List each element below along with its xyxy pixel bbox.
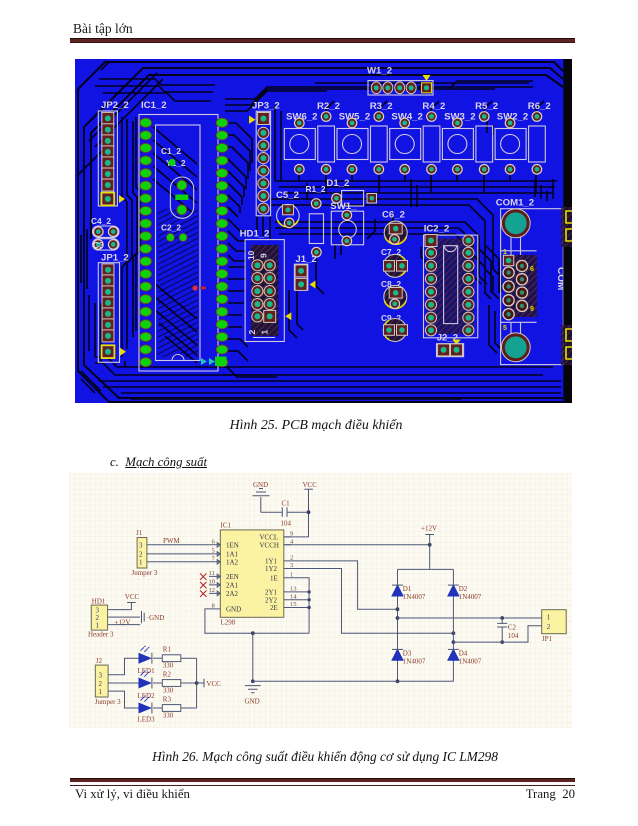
- board edge strip: [561, 59, 572, 403]
- svg-text:IC1_2: IC1_2: [141, 100, 167, 111]
- connector JP1: [542, 610, 567, 643]
- svg-text:D1_2: D1_2: [326, 178, 349, 189]
- header text: [73, 21, 133, 37]
- ground GND (bottom): [245, 686, 261, 706]
- svg-text:R4_2: R4_2: [422, 101, 445, 112]
- wire bottom-left risers: [89, 295, 125, 367]
- svg-text:D2: D2: [459, 585, 468, 593]
- svg-text:+12V: +12V: [421, 525, 437, 533]
- op-amp U1 body: IC1 L298: [220, 522, 283, 627]
- svg-text:J1_2: J1_2: [295, 254, 316, 265]
- wire J2.3 to LED1: [108, 658, 138, 675]
- node C2 top junction: [500, 616, 504, 620]
- wire 1E/2Y1/2Y2/2E bus: [291, 578, 309, 633]
- svg-text:12: 12: [209, 587, 216, 594]
- connector W1_2: [367, 66, 433, 96]
- svg-text:9: 9: [530, 306, 534, 313]
- IC socket IC1_2: [139, 100, 218, 371]
- no-connect X on pin 12: [200, 590, 207, 597]
- wire bridge left out to JP1 pin1: [398, 617, 542, 619]
- svg-text:PWM: PWM: [163, 537, 181, 545]
- capacitor C3_2: [93, 239, 120, 250]
- connector HD1 Header 3: [88, 598, 114, 639]
- power VCC (HD1): [125, 593, 140, 603]
- wire J1.3 to 1EN: [147, 544, 215, 546]
- svg-text:C4_2: C4_2: [91, 216, 111, 226]
- resistor R6_2: [528, 101, 551, 174]
- svg-text:330: 330: [163, 711, 174, 719]
- pin stubs IC1 right: [284, 537, 292, 608]
- svg-text:10: 10: [209, 578, 216, 585]
- svg-text:GND: GND: [253, 481, 268, 489]
- svg-text:1Y2: 1Y2: [265, 565, 278, 573]
- wire IC1 column hatch: [153, 127, 197, 363]
- wire HD1.3 to VCC: [108, 603, 132, 610]
- svg-text:1N4007: 1N4007: [403, 658, 426, 666]
- svg-text:1: 1: [290, 571, 293, 578]
- footer thick rule: [70, 778, 575, 782]
- svg-text:C1: C1: [282, 500, 291, 508]
- svg-text:1: 1: [260, 330, 270, 335]
- wire HD1.2 to GND: [108, 616, 141, 618]
- wire bridge left branch: [397, 569, 399, 681]
- svg-text:C5_2: C5_2: [276, 190, 299, 201]
- svg-text:R6_2: R6_2: [528, 101, 551, 112]
- svg-text:15: 15: [290, 601, 297, 608]
- wire bridge right branch: [452, 569, 454, 681]
- svg-text:1N4007: 1N4007: [403, 593, 426, 601]
- footer left text: [75, 787, 190, 802]
- svg-text:2A1: 2A1: [226, 581, 239, 589]
- node right-branch bottom junction: [452, 640, 456, 644]
- svg-text:VCCH: VCCH: [260, 541, 279, 549]
- connector J2_2: [437, 333, 464, 357]
- switch SW2_2: [495, 112, 528, 174]
- resistor R2 330: [153, 671, 197, 695]
- connector HD1_2: [240, 229, 292, 342]
- diode D2 1N4007: [448, 585, 482, 601]
- node GND junction: [251, 631, 255, 635]
- IC1_2 left pads: [140, 118, 152, 367]
- svg-text:1N4007: 1N4007: [459, 593, 482, 601]
- svg-text:R2_2: R2_2: [317, 101, 340, 112]
- capacitor C1 104: [281, 500, 309, 528]
- wire 1Y1 pin2 to bridge left: [291, 561, 397, 609]
- svg-text:J2: J2: [96, 657, 103, 665]
- connector COM1_2: [496, 198, 566, 365]
- node pin2/left-branch junction: [396, 607, 400, 611]
- wire COM1 left bundle: [473, 245, 503, 353]
- no-connect X on pin 11: [200, 573, 207, 580]
- svg-text:3: 3: [99, 672, 103, 680]
- diode D1_2: [326, 178, 376, 206]
- svg-text:1: 1: [99, 688, 103, 696]
- diode D3 1N4007: [392, 649, 426, 665]
- svg-text:L298: L298: [221, 619, 236, 627]
- svg-text:2: 2: [547, 623, 551, 631]
- connector J1_2: [294, 254, 316, 290]
- switch SW1: [330, 201, 363, 246]
- wire bottom bundle: [95, 357, 561, 399]
- PCB image placeholder: [75, 59, 572, 403]
- wire bridge top rail: [398, 568, 454, 570]
- switch SW6_2: [284, 112, 317, 174]
- wire 1Y2 pin3 to bridge right: [291, 569, 453, 634]
- svg-text:9: 9: [259, 253, 269, 258]
- crystal Y1_2: [161, 146, 194, 218]
- header rule: [70, 38, 575, 43]
- svg-text:D4: D4: [459, 650, 468, 658]
- svg-text:R2: R2: [163, 671, 172, 679]
- svg-text:2E: 2E: [270, 604, 278, 612]
- wire border loop inner: [91, 75, 563, 239]
- svg-text:C1_2: C1_2: [161, 146, 181, 156]
- svg-text:VCC: VCC: [303, 481, 318, 489]
- svg-text:1A2: 1A2: [226, 558, 239, 566]
- resistor R3_2: [370, 101, 393, 174]
- node VCC bus junction: [195, 681, 199, 685]
- wire misc center: [81, 119, 553, 393]
- ground GND (top, near C1): [253, 481, 270, 512]
- capacitor C7_2: [381, 247, 408, 277]
- svg-text:6: 6: [530, 266, 534, 273]
- svg-text:LED2: LED2: [138, 692, 156, 700]
- svg-text:2: 2: [290, 554, 293, 561]
- svg-text:2: 2: [99, 680, 103, 688]
- svg-text:2Y1: 2Y1: [265, 588, 278, 596]
- svg-text:VCCL: VCCL: [260, 533, 279, 541]
- svg-text:W1_2: W1_2: [367, 66, 392, 77]
- diode D4 1N4007: [448, 649, 482, 665]
- svg-text:2: 2: [139, 551, 143, 559]
- resistor R4_2: [422, 101, 445, 174]
- IC socket IC2_2: [424, 224, 478, 338]
- wire SW bottom bundle: [275, 169, 557, 193]
- svg-text:J1: J1: [136, 529, 143, 537]
- svg-text:11: 11: [209, 570, 215, 577]
- wire R top stubs: [326, 101, 544, 117]
- svg-text:C2: C2: [508, 624, 517, 632]
- svg-text:GND: GND: [245, 698, 260, 706]
- wire J1.1 to 1A2: [147, 561, 215, 563]
- svg-text:GND: GND: [226, 605, 241, 613]
- svg-text:VCC: VCC: [125, 593, 140, 601]
- ground GND (HD1 power port): [142, 611, 165, 623]
- capacitor C5_2: [276, 190, 299, 228]
- PCB background: [75, 59, 572, 403]
- svg-text:·GND: ·GND: [147, 614, 165, 622]
- svg-text:14: 14: [290, 593, 297, 600]
- svg-text:R1_2: R1_2: [306, 184, 326, 194]
- LED LED3: [138, 695, 156, 723]
- pin stubs with input arrows on IC1 left: [209, 545, 220, 594]
- svg-text:13: 13: [290, 585, 297, 592]
- svg-text:1: 1: [547, 613, 551, 621]
- wire corner diagonals: [78, 62, 163, 175]
- svg-text:JP1: JP1: [542, 635, 553, 643]
- caption figure 25: [0, 418, 635, 434]
- wire GND to C1: [261, 511, 283, 513]
- resistor R5_2: [475, 101, 498, 174]
- wire bridge right out to JP1 pin2: [453, 626, 541, 642]
- svg-text:Jumper 3: Jumper 3: [132, 569, 158, 577]
- svg-text:HD1_2: HD1_2: [240, 229, 270, 240]
- svg-text:R5_2: R5_2: [475, 101, 498, 112]
- svg-text:R1: R1: [163, 645, 172, 653]
- svg-text:IC1: IC1: [221, 522, 232, 530]
- wire pin8 GND down: [205, 609, 309, 633]
- list item c: [110, 455, 207, 470]
- wire J2.1 to LED3: [108, 691, 138, 708]
- wire LED/R bus: [196, 658, 198, 708]
- resistor R1 330: [153, 645, 197, 669]
- svg-text:1N4007: 1N4007: [459, 658, 482, 666]
- connector J2 Jumper 3: [95, 657, 121, 706]
- svg-text:1: 1: [503, 249, 507, 256]
- resistor R1_2: [306, 184, 326, 257]
- LED LED2: [138, 670, 156, 700]
- svg-text:JP3_2: JP3_2: [252, 101, 280, 112]
- svg-text:D1: D1: [403, 585, 412, 593]
- svg-text:Jumper 3: Jumper 3: [95, 698, 121, 706]
- svg-text:10: 10: [246, 250, 256, 260]
- svg-text:2A2: 2A2: [226, 590, 239, 598]
- power VCC (LED bus): [197, 679, 222, 688]
- svg-text:1EN: 1EN: [226, 541, 239, 549]
- wire border loop outer: [78, 62, 563, 402]
- wire top bundle: [95, 79, 533, 181]
- svg-text:VCC: VCC: [206, 680, 221, 688]
- switch SW3_2: [442, 112, 475, 174]
- svg-text:C6_2: C6_2: [382, 210, 405, 221]
- svg-text:R3_2: R3_2: [370, 101, 393, 112]
- power VCC (top): [303, 481, 318, 537]
- svg-text:COM1_2: COM1_2: [496, 198, 534, 209]
- node pin3/right-branch junction: [452, 631, 456, 635]
- svg-text:330: 330: [163, 662, 174, 670]
- node C2 bottom junction: [500, 640, 504, 644]
- capacitor C6_2: [382, 210, 407, 245]
- svg-text:LED1: LED1: [138, 667, 156, 675]
- svg-text:LED3: LED3: [138, 716, 156, 724]
- wire right of IC1 bundle: [228, 123, 252, 361]
- svg-text:C3: C3: [93, 240, 104, 250]
- node rail/left-branch junction: [396, 679, 400, 683]
- no-connect X on pin 10: [200, 582, 207, 589]
- node VCC/C1 junction: [307, 510, 311, 514]
- footer thin rule: [70, 785, 575, 786]
- wire VCC to pin 9: [284, 536, 309, 538]
- connector JP1_2: [98, 253, 128, 363]
- caption figure 26: [6, 749, 638, 765]
- wire HD1.1 stub: [108, 624, 141, 626]
- wire J1.2 to 1A1: [147, 553, 215, 555]
- svg-text:C2_2: C2_2: [161, 223, 181, 233]
- node +12V junction: [428, 543, 432, 547]
- svg-text:HD1: HD1: [92, 598, 106, 606]
- svg-text:2: 2: [247, 330, 257, 335]
- footer right text: [0, 787, 575, 802]
- svg-text:Header 3: Header 3: [88, 630, 114, 638]
- node rail junction: [251, 679, 255, 683]
- svg-text:SW1_: SW1_: [330, 201, 357, 212]
- svg-text:2EN: 2EN: [226, 573, 239, 581]
- wire J2.2 to LED2: [108, 682, 138, 684]
- capacitor C9_2: [381, 313, 408, 342]
- via red marker: [192, 285, 206, 290]
- svg-text:3: 3: [139, 542, 143, 550]
- wire GND vertical to bottom rail: [252, 633, 254, 681]
- wire left vertical bundle: [122, 117, 140, 357]
- schematic background: [69, 473, 572, 728]
- svg-text:D3: D3: [403, 650, 412, 658]
- connector JP3_2: [249, 101, 280, 216]
- capacitor C8_2: [381, 279, 407, 309]
- svg-text:104: 104: [508, 632, 519, 640]
- wire bridge bottom rail: [253, 680, 454, 682]
- wire VCCH pin4 to +12V: [284, 544, 430, 546]
- resistor R3 330: [153, 696, 197, 720]
- node left-branch/out junction: [396, 616, 400, 620]
- svg-text:104: 104: [281, 520, 292, 528]
- svg-text:330: 330: [163, 686, 174, 694]
- svg-text:1E: 1E: [270, 574, 278, 582]
- connector JP2_2: [98, 100, 128, 206]
- capacitor C2_2: [161, 223, 187, 242]
- svg-text:R3: R3: [163, 696, 172, 704]
- switch SW5_2: [337, 112, 370, 174]
- IC1 pin1 marks: [201, 357, 227, 367]
- svg-text:1: 1: [96, 621, 100, 629]
- svg-text:1A1: 1A1: [226, 550, 239, 558]
- LED LED1: [138, 645, 156, 675]
- wire middle loops: [271, 199, 501, 293]
- switch SW4_2: [390, 112, 423, 174]
- power +12V: [421, 525, 437, 570]
- diode D1 1N4007: [392, 585, 426, 601]
- IC1_2 right pads: [216, 118, 228, 367]
- resistor R2_2: [317, 101, 340, 174]
- capacitor C4_2: [91, 216, 119, 237]
- svg-text:1: 1: [139, 559, 143, 567]
- connector J1 Jumper 3: [132, 529, 158, 577]
- capacitor C2 104: [497, 618, 519, 642]
- schematic image: [69, 473, 572, 728]
- svg-text:IC2_2: IC2_2: [424, 224, 450, 235]
- wire IC1 inner hatch: [158, 209, 198, 357]
- svg-text:5: 5: [503, 325, 507, 332]
- wire border loop middle: [84, 68, 563, 398]
- svg-text:JP1_2: JP1_2: [101, 253, 129, 264]
- svg-text:JP2_2: JP2_2: [101, 100, 129, 111]
